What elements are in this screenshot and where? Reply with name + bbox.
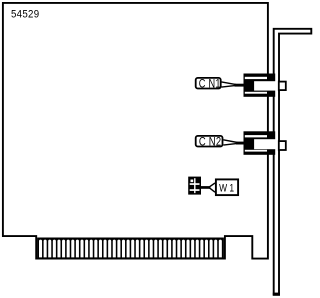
svg-text:54529: 54529 <box>11 8 39 21</box>
connector CN2 <box>244 131 286 155</box>
connector CN1 <box>244 74 286 97</box>
jumper W1 block <box>188 177 201 195</box>
label W1 <box>201 179 238 195</box>
bracket <box>274 29 312 295</box>
svg-text:W 1: W 1 <box>219 183 234 195</box>
label CN1 <box>196 78 244 91</box>
card outline (PCB) <box>3 3 268 259</box>
edge connector (gold fingers comb) <box>37 238 224 260</box>
svg-text:C N1: C N1 <box>199 79 221 91</box>
svg-text:C N2: C N2 <box>199 136 221 149</box>
label CN2 <box>196 136 244 149</box>
